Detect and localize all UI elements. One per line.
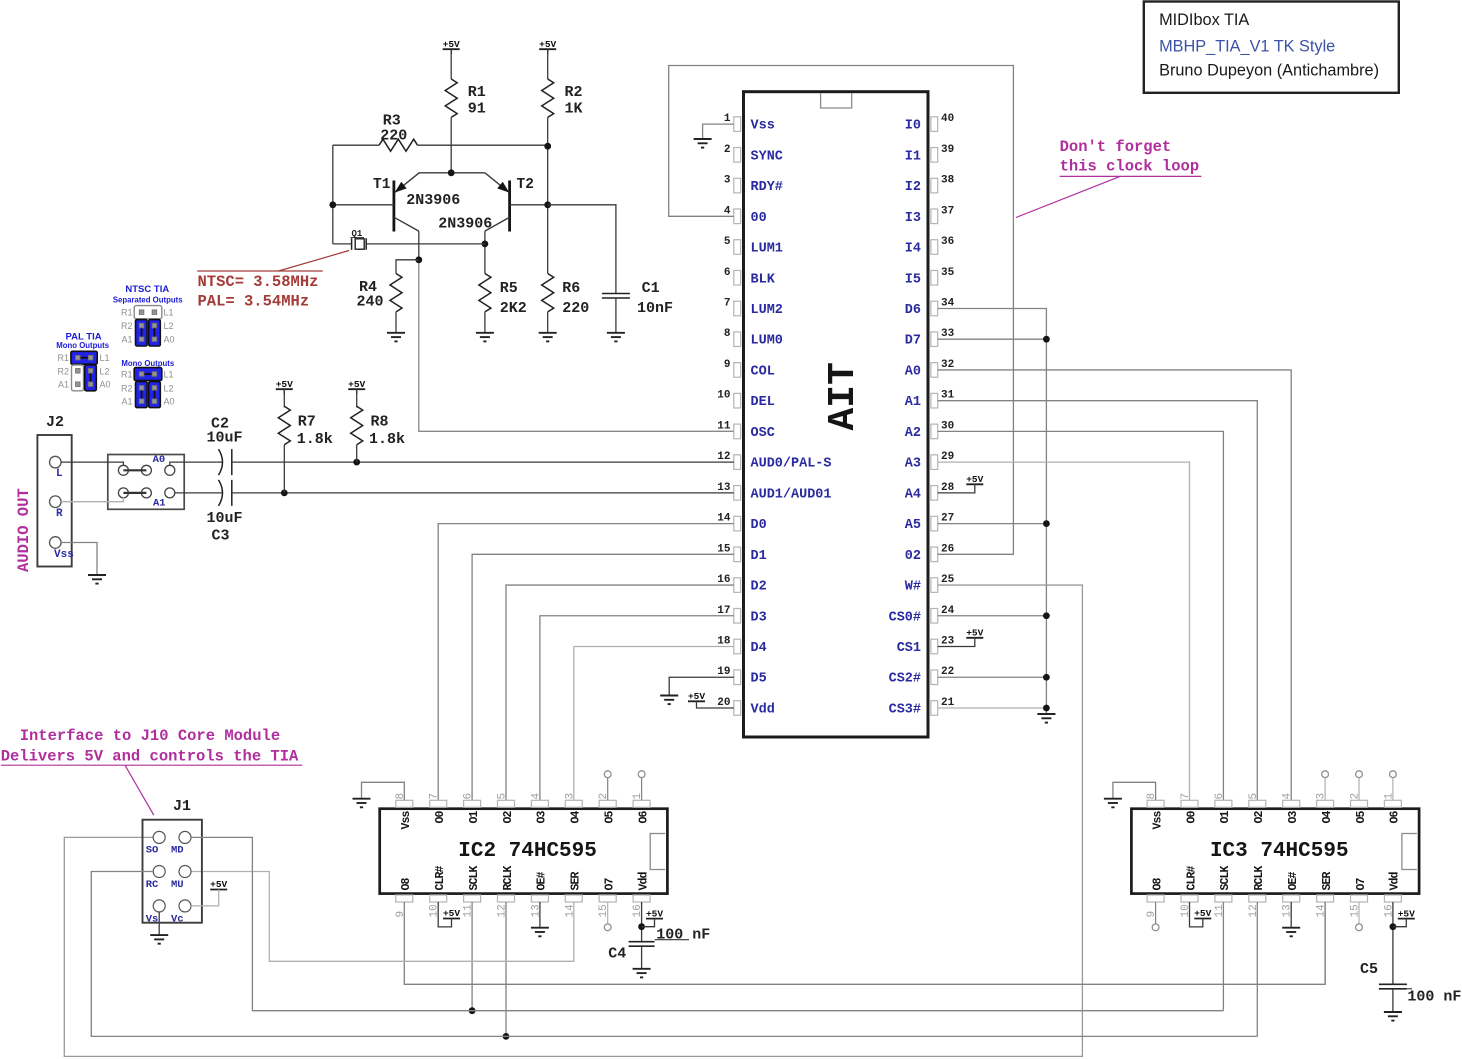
svg-text:3: 3 (724, 175, 731, 187)
svg-text:T1: T1 (373, 177, 391, 193)
svg-text:5: 5 (497, 793, 509, 800)
IC2 pin 5 (O2) (498, 800, 515, 807)
IC3 pin 8 (Vss) (1147, 800, 1164, 807)
svg-text:AUDIO OUT: AUDIO OUT (15, 488, 33, 572)
svg-text:+5V: +5V (688, 691, 705, 702)
svg-text:R2: R2 (565, 84, 583, 101)
svg-text:32: 32 (941, 359, 954, 371)
svg-text:+5V: +5V (1398, 908, 1415, 919)
junction (544, 201, 551, 208)
svg-text:11: 11 (717, 420, 731, 432)
TIA pin 17 (D3) (734, 608, 741, 623)
wire D6 pin34 / ground rail (938, 308, 1047, 714)
svg-text:D2: D2 (751, 580, 767, 595)
svg-text:1.8k: 1.8k (297, 431, 333, 448)
ground (660, 695, 678, 697)
wire left rail (332, 145, 334, 244)
svg-text:Vdd: Vdd (1389, 871, 1402, 890)
svg-text:PAL= 3.54MHz: PAL= 3.54MHz (198, 293, 310, 311)
wire D4 pin18 to IC2 O4 (574, 647, 734, 801)
svg-text:Mono Outputs: Mono Outputs (56, 341, 109, 350)
svg-text:A1: A1 (153, 498, 166, 510)
svg-text:8: 8 (395, 793, 407, 800)
TIA pin 13 (AUD1/AUD01) (734, 486, 741, 501)
svg-text:Vc: Vc (171, 914, 184, 926)
svg-text:MIDIbox TIA: MIDIbox TIA (1159, 11, 1249, 29)
svg-text:36: 36 (941, 236, 954, 248)
svg-text:CLR#: CLR# (434, 865, 447, 890)
svg-text:SER: SER (570, 871, 583, 890)
svg-text:A1: A1 (121, 335, 132, 345)
resistor R8 (356, 389, 358, 407)
TIA pin 37 (I3) (931, 209, 938, 224)
wire (938, 638, 975, 647)
svg-text:L1: L1 (164, 308, 174, 318)
junction (1043, 705, 1050, 712)
svg-text:R1: R1 (121, 370, 133, 380)
svg-text:12: 12 (1248, 904, 1260, 917)
wire IC3 Vdd pin16 (1392, 902, 1394, 984)
svg-text:3: 3 (564, 793, 576, 800)
TIA pin 40 (I0) (931, 117, 938, 132)
svg-text:28: 28 (941, 482, 955, 494)
IC3 pin 2 (O5) (1351, 800, 1368, 807)
svg-text:4: 4 (724, 205, 731, 217)
svg-text:6: 6 (1214, 793, 1226, 800)
wire IC2 Vdd pin16 (641, 902, 643, 942)
svg-text:O5: O5 (1355, 811, 1368, 824)
svg-text:240: 240 (357, 294, 384, 311)
TIA pin 34 (D6) (931, 301, 938, 316)
svg-text:COL: COL (751, 364, 775, 379)
wire D2 pin16 to IC2 O2 (506, 585, 734, 800)
wire (333, 144, 379, 146)
wire D1 pin15 to IC2 O1 (472, 554, 734, 800)
resistor R1 (445, 79, 457, 117)
svg-text:Delivers 5V and controls the T: Delivers 5V and controls the TIA (1, 748, 299, 766)
wire CS0# pin24 (938, 615, 1047, 617)
svg-text:W#: W# (905, 580, 921, 595)
svg-text:R1: R1 (468, 84, 486, 101)
wire (191, 890, 219, 906)
TIA pin 16 (D2) (734, 578, 741, 593)
TIA pin 23 (CS1) (931, 639, 938, 654)
svg-text:L2: L2 (164, 321, 174, 331)
TIA pin 25 (W#) (931, 578, 938, 593)
svg-text:IC3 74HC595: IC3 74HC595 (1210, 840, 1349, 863)
wire clock loop (pin4 00 to pin26 02) (669, 66, 1014, 555)
svg-text:NTSC= 3.58MHz: NTSC= 3.58MHz (198, 273, 319, 291)
capacitor C4 (629, 941, 655, 943)
svg-text:O8: O8 (1151, 877, 1164, 890)
junction (1043, 612, 1050, 619)
svg-text:SYNC: SYNC (751, 149, 783, 164)
svg-text:AUD1/AUD01: AUD1/AUD01 (751, 487, 832, 502)
TIA pin 15 (D1) (734, 547, 741, 562)
IC2 pin 3 (O4) (565, 800, 582, 807)
svg-text:D6: D6 (905, 303, 921, 318)
TIA pin 9 (COL) (734, 363, 741, 378)
IC3 pin 12 (RCLK) (1249, 895, 1266, 902)
svg-text:2: 2 (1350, 793, 1362, 800)
svg-text:O6: O6 (637, 811, 650, 824)
svg-text:10uF: 10uF (207, 430, 243, 447)
TIA pin 39 (I1) (931, 148, 938, 163)
wire J2 Vss to ground (61, 543, 97, 576)
wire W# pin25 to J1 SO bus (64, 585, 1082, 1056)
svg-text:A1: A1 (121, 397, 132, 407)
svg-text:4: 4 (1282, 793, 1294, 800)
IC3 pin 10 (CLR#) (1181, 895, 1198, 902)
svg-text:33: 33 (941, 328, 955, 340)
junction (1390, 923, 1397, 930)
svg-text:9: 9 (724, 359, 731, 371)
svg-text:CS0#: CS0# (889, 610, 921, 625)
svg-text:10nF: 10nF (637, 300, 673, 317)
wire D0 pin14 to IC2 O0 (438, 524, 734, 801)
svg-text:O3: O3 (1287, 811, 1300, 824)
wire J1 RC to RCLK bus (91, 872, 1257, 1037)
svg-text:13: 13 (717, 482, 731, 494)
junction (329, 201, 336, 208)
IC2 pin 2 (O5) (599, 800, 616, 807)
TIA pin 29 (A3) (931, 455, 938, 470)
IC3 pin 6 (O1) (1215, 800, 1232, 807)
TIA pin 20 (Vdd) (734, 701, 741, 716)
wire IC2 SCLK pin11 (471, 902, 473, 1011)
svg-text:2N3906: 2N3906 (406, 192, 460, 209)
resistor R2 (542, 79, 554, 117)
svg-text:1: 1 (1383, 793, 1395, 800)
IC3 O8 pin9 no-connect (1155, 902, 1157, 924)
svg-text:R2: R2 (121, 383, 133, 393)
svg-text:A3: A3 (905, 457, 921, 472)
svg-text:9: 9 (395, 911, 407, 918)
TIA IC body (744, 92, 929, 737)
svg-text:BLK: BLK (751, 272, 776, 287)
svg-text:24: 24 (941, 605, 955, 617)
svg-text:DEL: DEL (751, 395, 775, 410)
TIA pin 24 (CS0#) (931, 608, 938, 623)
IC2 pin 15 (O7) (599, 895, 616, 902)
ground (1104, 798, 1122, 800)
IC3 pin 4 (O3) (1283, 800, 1300, 807)
svg-text:A1: A1 (58, 380, 69, 390)
ground (88, 574, 106, 576)
svg-text:16: 16 (1383, 904, 1395, 917)
TIA pin 3 (RDY#) (734, 178, 741, 193)
ground (387, 332, 405, 334)
svg-text:+5V: +5V (646, 908, 663, 919)
IC3 pin2 no-connect (1358, 778, 1360, 801)
svg-text:15: 15 (598, 904, 610, 917)
wire (418, 144, 548, 146)
svg-text:L: L (56, 468, 63, 480)
svg-text:O1: O1 (468, 811, 481, 824)
svg-text:16: 16 (632, 904, 644, 917)
junction (638, 923, 645, 930)
svg-text:02: 02 (905, 549, 921, 564)
wire (283, 445, 285, 493)
svg-text:4: 4 (530, 793, 542, 800)
svg-text:10: 10 (717, 390, 730, 402)
wire A1 to AUD1 (pin13) (175, 492, 222, 494)
IC3 pin1 no-connect (1392, 778, 1394, 801)
TIA pin 31 (A1) (931, 393, 938, 408)
TIA pin 10 (DEL) (734, 393, 741, 408)
svg-text:39: 39 (941, 144, 954, 156)
IC IC3 74HC595 body (1131, 809, 1419, 894)
svg-text:RDY#: RDY# (751, 180, 783, 195)
svg-text:D5: D5 (751, 672, 767, 687)
IC2 pin1 no-connect (641, 778, 643, 801)
wire (438, 902, 451, 927)
svg-text:O2: O2 (502, 811, 515, 824)
wire (232, 461, 734, 463)
svg-text:SER: SER (1321, 871, 1334, 890)
junction (415, 256, 422, 263)
svg-text:R8: R8 (371, 414, 389, 431)
TIA pin 14 (D0) (734, 516, 741, 531)
wire (938, 484, 975, 493)
ground (150, 934, 168, 936)
svg-text:A2: A2 (905, 426, 921, 441)
svg-text:16: 16 (717, 574, 730, 586)
svg-text:O7: O7 (604, 877, 617, 890)
svg-text:O6: O6 (1389, 811, 1402, 824)
wire IC3 OE# pin13 to ground (1290, 902, 1292, 928)
svg-text:+5V: +5V (276, 379, 293, 390)
svg-text:C5: C5 (1360, 961, 1378, 978)
svg-text:SCLK: SCLK (1219, 865, 1232, 890)
svg-text:A0: A0 (153, 454, 166, 466)
IC3 pin 9 (O8) (1147, 895, 1164, 902)
TIA pin 11 (OSC) (734, 424, 741, 439)
wire T1 collector to OSC (418, 231, 420, 262)
wire (232, 492, 734, 494)
IC2 pin 4 (O3) (531, 800, 548, 807)
IC2 pin 16 (Vdd) (633, 895, 650, 902)
svg-text:Mono Outputs: Mono Outputs (121, 359, 174, 368)
title block (1144, 2, 1399, 93)
svg-text:Vdd: Vdd (637, 871, 650, 890)
IC2 pin 12 (RCLK) (498, 895, 515, 902)
svg-text:8: 8 (1146, 793, 1158, 800)
ground (1384, 1011, 1402, 1013)
svg-text:R7: R7 (298, 414, 316, 431)
wire emitter rail (419, 172, 485, 174)
IC3 pin15 no-connect (1358, 902, 1360, 924)
svg-text:IC2 74HC595: IC2 74HC595 (458, 840, 597, 863)
svg-text:I5: I5 (905, 272, 921, 287)
junction (1043, 520, 1050, 527)
wire (547, 49, 549, 79)
svg-text:MU: MU (171, 879, 184, 891)
svg-text:L1: L1 (164, 370, 174, 380)
svg-text:Separated Outputs: Separated Outputs (113, 296, 183, 305)
TIA pin 27 (A5) (931, 516, 938, 531)
svg-text:AUD0/PAL-S: AUD0/PAL-S (751, 457, 832, 472)
junction (1043, 674, 1050, 681)
svg-text:I3: I3 (905, 211, 921, 226)
IC2 pin15 no-connect (607, 902, 609, 924)
TIA pin 5 (LUM1) (734, 240, 741, 255)
IC2 pin 8 (Vss) (396, 800, 413, 807)
svg-text:R2: R2 (57, 366, 69, 376)
svg-text:C1: C1 (642, 280, 660, 297)
svg-text:I4: I4 (905, 242, 921, 257)
svg-text:23: 23 (941, 636, 955, 648)
svg-text:37: 37 (941, 205, 954, 217)
svg-text:MD: MD (171, 845, 184, 857)
svg-text:220: 220 (562, 300, 589, 317)
wire D7 pin33 (938, 338, 1047, 340)
svg-text:30: 30 (941, 420, 954, 432)
svg-text:A0: A0 (100, 380, 111, 390)
junction (1043, 336, 1050, 343)
IC3 pin 3 (O4) (1317, 800, 1334, 807)
IC3 pin 14 (SER) (1317, 895, 1334, 902)
svg-text:O7: O7 (1355, 877, 1368, 890)
svg-text:31: 31 (941, 390, 955, 402)
IC3 pin 5 (O2) (1249, 800, 1266, 807)
IC2 pin 11 (SCLK) (464, 895, 481, 902)
IC3 notch (1402, 834, 1417, 870)
wire A1 pin31 to IC3 O2 (938, 401, 1258, 801)
junction (544, 143, 551, 150)
svg-text:J1: J1 (173, 798, 191, 815)
svg-text:D1: D1 (751, 549, 767, 564)
svg-text:RCLK: RCLK (1253, 865, 1266, 890)
ground (353, 798, 371, 800)
IC2 pin 7 (O0) (430, 800, 447, 807)
wire IC3 Vss pin8 to ground (1113, 782, 1156, 800)
wire (450, 117, 452, 172)
TIA pin 32 (A0) (931, 363, 938, 378)
wire IC2 O8 pin9 to IC3 SER (404, 902, 1325, 984)
IC2 pin 13 (OE#) (531, 895, 548, 902)
svg-text:40: 40 (941, 113, 954, 125)
TIA pin 18 (D4) (734, 639, 741, 654)
svg-text:10uF: 10uF (207, 510, 243, 527)
svg-text:2: 2 (724, 144, 731, 156)
wire IC2 SER pin14 to J1 MU (191, 872, 574, 962)
svg-text:MBHP_TIA_V1 TK Style: MBHP_TIA_V1 TK Style (1159, 38, 1335, 56)
svg-text:R1: R1 (121, 308, 133, 318)
svg-text:17: 17 (717, 605, 730, 617)
svg-text:+5V: +5V (966, 474, 983, 485)
svg-text:D0: D0 (751, 518, 767, 533)
svg-text:13: 13 (530, 904, 542, 917)
junction (353, 459, 360, 466)
svg-text:O0: O0 (1185, 811, 1198, 824)
svg-text:38: 38 (941, 175, 955, 187)
junction (469, 1007, 476, 1014)
svg-text:91: 91 (468, 101, 486, 118)
svg-text:RC: RC (146, 879, 159, 891)
svg-text:Vss: Vss (400, 811, 413, 830)
svg-text:Vss: Vss (751, 119, 775, 134)
resistor R4 (396, 260, 419, 274)
wire Vss pin1 to ground (703, 124, 734, 139)
svg-text:13: 13 (1282, 904, 1294, 917)
TIA pin 19 (D5) (734, 670, 741, 685)
svg-text:26: 26 (941, 543, 954, 555)
ground (531, 927, 549, 929)
svg-text:100 nF: 100 nF (656, 927, 710, 944)
svg-text:Don't forget: Don't forget (1060, 138, 1172, 156)
ground (539, 332, 557, 334)
junction (482, 241, 489, 248)
svg-text:J2: J2 (46, 414, 64, 431)
wire J1 Vs to ground (158, 912, 160, 935)
IC3 pin 7 (O0) (1181, 800, 1198, 807)
svg-text:I2: I2 (905, 180, 921, 195)
ground (1037, 713, 1055, 715)
svg-text:L2: L2 (164, 383, 174, 393)
svg-text:L1: L1 (100, 353, 110, 363)
TIA pin 8 (LUM0) (734, 332, 741, 347)
svg-text:C4: C4 (608, 946, 626, 963)
ground (607, 332, 625, 334)
TIA pin 26 (02) (931, 547, 938, 562)
wire IC2 RCLK pin12 (505, 902, 507, 1036)
svg-text:R2: R2 (121, 321, 133, 331)
svg-text:A1: A1 (905, 395, 921, 410)
svg-text:+5V: +5V (539, 39, 556, 50)
svg-text:SO: SO (146, 845, 159, 857)
svg-text:7: 7 (724, 297, 731, 309)
wire J1 MD to SCLK bus (191, 837, 1223, 1010)
svg-text:21: 21 (941, 697, 955, 709)
resistor R7 (283, 389, 285, 407)
svg-text:R5: R5 (500, 280, 518, 297)
svg-text:R6: R6 (562, 280, 580, 297)
wire A0 pin32 to IC3 O3 (938, 370, 1291, 800)
svg-text:NTSC TIA: NTSC TIA (125, 284, 169, 295)
svg-text:C3: C3 (212, 528, 230, 545)
wire T1 base (333, 204, 394, 206)
TIA pin 7 (LUM2) (734, 301, 741, 316)
svg-text:25: 25 (941, 574, 955, 586)
svg-text:+5V: +5V (210, 879, 227, 890)
TIA pin 28 (A4) (931, 486, 938, 501)
svg-text:1: 1 (632, 793, 644, 800)
TIA pin 21 (CS3#) (931, 701, 938, 716)
svg-text:9: 9 (1146, 911, 1158, 918)
svg-text:7: 7 (1180, 793, 1192, 800)
wire A5 pin27 (938, 523, 1047, 525)
wire IC3 RCLK pin12 (1256, 902, 1258, 1036)
svg-text:R: R (56, 508, 63, 520)
wire to C1 (548, 205, 616, 294)
svg-text:O4: O4 (570, 811, 583, 824)
svg-text:OE#: OE# (536, 871, 549, 890)
svg-text:100 nF: 100 nF (1407, 989, 1461, 1006)
ground (1282, 927, 1300, 929)
TIA pin 35 (I5) (931, 270, 938, 285)
svg-text:1: 1 (724, 113, 731, 125)
svg-text:O0: O0 (434, 811, 447, 824)
svg-text:6: 6 (724, 267, 731, 279)
svg-text:R1: R1 (57, 353, 69, 363)
TIA pin 1 (Vss) (734, 117, 741, 132)
svg-text:CLR#: CLR# (1185, 865, 1198, 890)
wire CS2# pin22 (938, 676, 1047, 678)
svg-text:2K2: 2K2 (500, 300, 527, 317)
wire IC2 Vss pin8 to ground (362, 782, 405, 800)
svg-text:CS3#: CS3# (889, 702, 921, 717)
